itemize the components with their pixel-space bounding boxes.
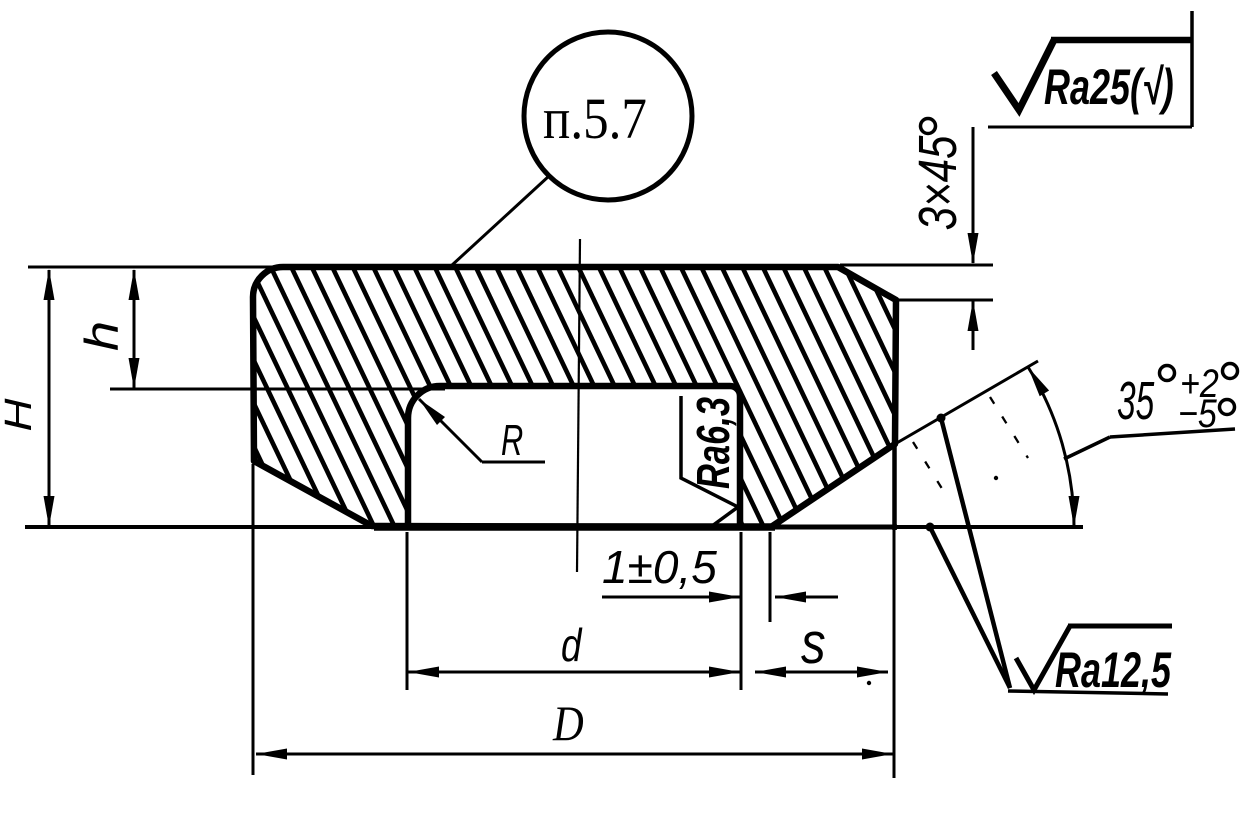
dimension D line (256, 753, 893, 756)
dimension d line (408, 671, 740, 674)
dimension 1±0,5 line left (602, 596, 740, 599)
scan speck (994, 476, 998, 480)
centerline (577, 239, 580, 572)
Ra12,5 leader 1 (941, 418, 1010, 688)
Ra12,5 leader dot on cone line (937, 414, 946, 423)
degree circle after +2 (1223, 364, 1238, 379)
svg-text:h: h (75, 321, 128, 351)
roughness Ra6,3 rotated symbol (681, 396, 738, 526)
D arrow right (862, 749, 893, 760)
arrow right (709, 592, 740, 603)
roughness Ra25 check (994, 40, 1054, 110)
extension D left (252, 464, 255, 775)
dimension h bottom arrow (129, 358, 140, 389)
roughness Ra25 box: top bar (1051, 37, 1193, 44)
angle label leader (1064, 437, 1110, 459)
svg-text:3×45: 3×45 (908, 135, 968, 231)
h level extension line (110, 388, 445, 391)
svg-text:R: R (501, 417, 523, 466)
tolerance dashed line A (990, 397, 1028, 458)
dimension H top arrow (44, 269, 55, 300)
svg-text:H: H (0, 398, 39, 432)
dimension H bottom arrow (44, 496, 55, 527)
chamfer top extension (840, 264, 993, 267)
callout circle п.5.7 (524, 32, 692, 200)
dimension h line (133, 270, 136, 388)
part section body with hatching (253, 267, 896, 527)
arc top arrow (1028, 367, 1049, 396)
dimension H line (48, 270, 51, 526)
d arrow left (408, 667, 439, 678)
extension band left (740, 532, 743, 690)
top extension line (28, 266, 285, 269)
dimension h top arrow (129, 269, 140, 300)
arc bottom arrow (1069, 496, 1080, 527)
s arrow right (857, 667, 888, 678)
chamfer dim line upper (972, 127, 975, 263)
scan speck (867, 681, 871, 685)
svg-text:1±0,5: 1±0,5 (602, 541, 717, 593)
cone extension line (895, 361, 1038, 444)
d arrow right (709, 667, 740, 678)
extension right edge (893, 530, 896, 778)
chamfer dim line lower (972, 300, 975, 350)
extension d left (406, 532, 409, 690)
baseline right thin (894, 525, 1083, 529)
Ra12,5 top bar (1068, 624, 1172, 629)
svg-text:п.5.7: п.5.7 (543, 86, 647, 151)
Ra12,5 leader 2 (930, 527, 1010, 688)
extension band right (769, 532, 772, 622)
chamfer bottom extension (898, 299, 993, 302)
radius leader R (419, 399, 445, 425)
svg-text:d: d (561, 619, 583, 671)
D arrow left (256, 749, 287, 760)
dimension s line (755, 671, 888, 674)
degree circle after -5 (1220, 400, 1235, 415)
callout leader (451, 176, 549, 266)
part bottom face thick (374, 523, 775, 531)
degree circle after 35 (1160, 366, 1175, 381)
dimension 1±0,5 line right (775, 596, 838, 599)
degree circle for 3x45 (921, 119, 936, 134)
svg-text:Ra6,3: Ra6,3 (687, 397, 739, 489)
svg-text:−5: −5 (1178, 390, 1217, 435)
svg-text:D: D (552, 697, 584, 752)
angle arc (1028, 367, 1074, 527)
baseline under cone (775, 525, 897, 530)
baseline left thin (25, 525, 378, 529)
roughness Ra25 box: bottom line (988, 126, 1192, 129)
svg-text:Ra25(√): Ra25(√) (1044, 60, 1174, 115)
chamfer arrow down (968, 233, 979, 264)
svg-text:35: 35 (1117, 370, 1155, 431)
s arrow left (755, 667, 786, 678)
roughness Ra25 box: right border (1190, 11, 1194, 127)
svg-text:Ra12,5: Ra12,5 (1055, 643, 1172, 698)
svg-text:s: s (801, 611, 826, 676)
Ra12,5 check (1016, 626, 1070, 690)
Ra12,5 underline (1008, 691, 1168, 694)
chamfer arrow up (968, 300, 979, 331)
Ra12,5 leader dot on baseline (926, 523, 935, 532)
extension right edge upper (through cone notch) (892, 444, 897, 530)
arrow left (775, 592, 806, 603)
tolerance dashed line B (913, 442, 946, 495)
